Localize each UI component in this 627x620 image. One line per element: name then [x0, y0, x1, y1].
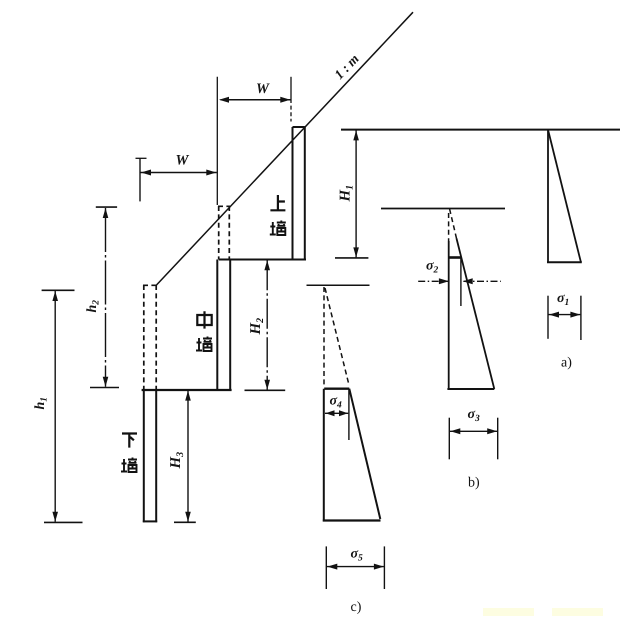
dimension h2 label — [85, 300, 102, 313]
label upper wall 墙 — [270, 221, 286, 236]
svg-text:1 : m: 1 : m — [331, 51, 361, 82]
sigma5 label — [351, 547, 364, 564]
svg-text:a): a) — [561, 356, 572, 371]
slope label 1:m — [331, 51, 361, 82]
svg-text:σ2: σ2 — [426, 259, 439, 276]
step line bottom (bottom of middle wall) — [142, 389, 232, 391]
sigma4 top tick — [324, 388, 349, 390]
ground line a — [341, 129, 620, 131]
sigma2 right edge line — [460, 258, 462, 307]
label a) — [561, 356, 572, 371]
pressure diagram b triangle — [447, 238, 494, 389]
dimension W top — [217, 77, 291, 205]
svg-text:W: W — [176, 153, 190, 169]
pressure diagram b dashed apex — [449, 209, 457, 241]
dimension W left label — [176, 153, 190, 169]
dimension H3 label — [168, 452, 186, 470]
dimension H1 — [335, 130, 368, 258]
svg-text:b): b) — [468, 476, 480, 491]
svg-text:h1: h1 — [33, 397, 50, 410]
sigma2 top tick — [449, 256, 461, 259]
dimension sigma3 — [449, 418, 497, 460]
label middle wall 墙 — [196, 337, 212, 352]
lower wall dashed extension — [143, 285, 158, 390]
svg-text:σ1: σ1 — [557, 291, 569, 308]
lower wall — [143, 390, 157, 522]
pressure diagram c dashed apex — [324, 287, 349, 385]
dimension H1 label — [338, 185, 356, 203]
sigma1 label — [557, 291, 569, 308]
slope line 1:m — [157, 12, 414, 285]
step line top (bottom of upper wall) — [219, 259, 306, 261]
dimension sigma5 — [326, 546, 384, 589]
sigma4 label — [330, 394, 343, 411]
label middle wall 中 — [197, 311, 211, 328]
middle wall — [217, 260, 230, 391]
label lower wall 下 — [122, 434, 137, 448]
svg-text:σ4: σ4 — [330, 394, 343, 411]
svg-text:W: W — [256, 81, 270, 97]
svg-text:h2: h2 — [85, 300, 102, 313]
dimension h2 — [90, 207, 119, 387]
middle wall dashed extension — [218, 206, 230, 260]
label lower wall 墙 — [121, 458, 137, 473]
sigma2 label — [426, 259, 439, 276]
dimension h1 — [42, 290, 83, 522]
upper wall — [293, 127, 305, 260]
dimension H2 label — [248, 318, 266, 336]
svg-text:σ3: σ3 — [468, 407, 481, 424]
svg-text:c): c) — [351, 600, 362, 615]
scan smudge — [483, 608, 603, 616]
svg-text:H2: H2 — [248, 318, 266, 336]
ground tick c — [307, 284, 370, 286]
dimension sigma4 arrows — [325, 410, 348, 416]
pressure diagram c solid — [323, 389, 381, 522]
sigma3 label — [468, 407, 481, 424]
pressure diagram a triangle — [547, 131, 582, 263]
sigma4 right edge line — [348, 389, 350, 440]
dimension h1 label — [33, 397, 50, 410]
label b) — [468, 476, 480, 491]
dimension W left — [136, 158, 217, 201]
svg-text:H1: H1 — [338, 185, 356, 203]
ground line b — [381, 208, 505, 210]
dimension sigma1 — [548, 296, 581, 340]
dimension H2 — [245, 260, 286, 390]
svg-text:H3: H3 — [168, 452, 186, 470]
svg-text:σ5: σ5 — [351, 547, 364, 564]
label upper wall 上 — [270, 195, 285, 210]
dimension W top label — [256, 81, 270, 97]
label c) — [351, 600, 362, 615]
dimension sigma2 arrows — [418, 278, 501, 284]
dimension H3 — [174, 391, 196, 523]
